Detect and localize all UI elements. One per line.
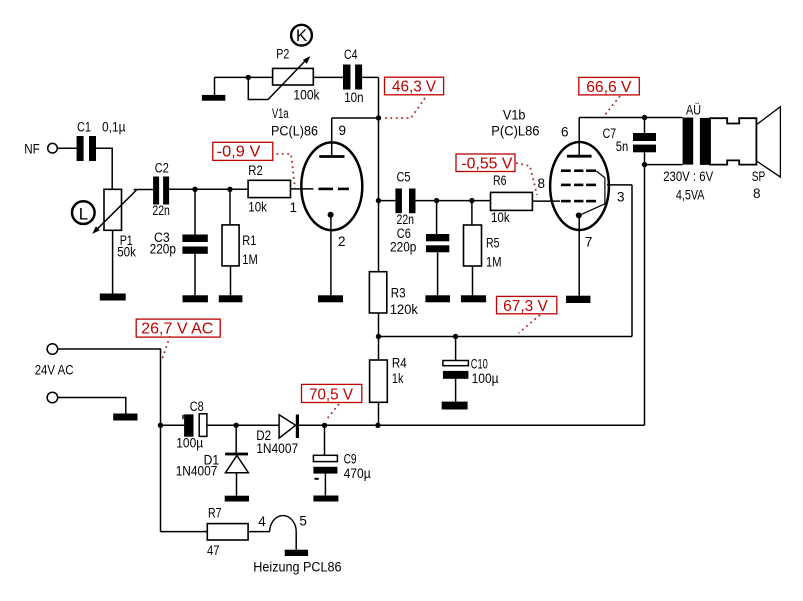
resistor R5 [464, 225, 502, 269]
wire junction to C6 [436, 201, 438, 234]
ground P2 [202, 77, 225, 100]
wire junction to C3 [194, 189, 196, 234]
wire junction to R5 [471, 201, 473, 225]
svg-text:C5: C5 [397, 170, 411, 185]
ground 24V AC [113, 414, 137, 421]
svg-text:4,5VA: 4,5VA [676, 188, 705, 203]
capacitor C4 [343, 47, 364, 105]
capacitor C8 [176, 399, 207, 450]
capacitor C10 [443, 337, 499, 402]
svg-text:8: 8 [538, 176, 546, 191]
wire C4 to rail [362, 76, 378, 78]
capacitor C2 [152, 161, 170, 218]
svg-text:100k: 100k [293, 88, 319, 103]
V1a grid dashes [318, 188, 349, 191]
node R3/R4 junction [376, 334, 381, 339]
node 26,7 V AC annotation [136, 319, 220, 361]
svg-text:5n: 5n [616, 139, 629, 154]
wire supply bus to output rail [378, 424, 645, 426]
svg-text:100µ: 100µ [472, 371, 499, 386]
svg-text:5: 5 [299, 513, 307, 528]
wire V1b pin 6 riser [578, 118, 580, 157]
svg-text:22n: 22n [152, 203, 170, 218]
ground D1 [225, 496, 249, 502]
svg-text:26,7 V AC: 26,7 V AC [141, 320, 213, 337]
node 66,6 V annotation [579, 77, 640, 116]
svg-text:SP: SP [752, 169, 766, 184]
transformer AÜ secondary [700, 118, 710, 165]
wire C3 to ground [194, 254, 196, 295]
svg-text:R2: R2 [248, 163, 262, 178]
svg-text:2: 2 [338, 234, 346, 249]
svg-text:L: L [79, 204, 88, 223]
node D1 junction [234, 423, 239, 428]
svg-text:C4: C4 [344, 47, 358, 62]
svg-text:1M: 1M [242, 252, 257, 267]
svg-text:K: K [296, 26, 308, 45]
svg-text:1: 1 [290, 200, 298, 215]
wire C1 to P1 top [96, 148, 112, 189]
svg-text:C1: C1 [77, 120, 91, 135]
wire R1 to ground [230, 266, 232, 295]
ground V1a cathode [318, 295, 343, 302]
svg-text:Heizung PCL86: Heizung PCL86 [253, 559, 341, 574]
resistor R7 [207, 506, 248, 558]
svg-text:-0,9 V: -0,9 V [217, 144, 261, 161]
wire top terminal to bus [58, 349, 161, 532]
ground R5 [461, 295, 486, 302]
node junction C3 [192, 187, 197, 192]
wire bottom terminal to ground [58, 398, 126, 415]
node junction C6 [434, 198, 439, 203]
resistor R4 [370, 337, 408, 426]
wire V1b anode to transformer [579, 117, 682, 119]
node 67,3 V annotation [497, 296, 557, 333]
wire rail to C5 [379, 200, 396, 202]
op-amp V1a triode envelope [271, 106, 362, 230]
svg-text:P(C)L86: P(C)L86 [491, 124, 539, 139]
svg-text:220p: 220p [390, 240, 416, 255]
node junction R1 [227, 187, 232, 192]
wire B+ rail vertical [378, 77, 380, 271]
wire V1a cathode to ground [330, 215, 332, 296]
wire P1 bottom to ground [112, 230, 114, 293]
node NF input terminal [24, 142, 57, 157]
V1a anode plate [319, 155, 344, 158]
wire wiper to C2 [134, 189, 154, 191]
svg-text:220p: 220p [150, 242, 176, 257]
ground C3 [183, 295, 208, 302]
wire NF to C1 [57, 147, 76, 149]
capacitor C1 [77, 120, 126, 162]
ground V1b cathode [566, 296, 590, 303]
wire P2 to C4 [313, 76, 343, 78]
node 70,5 V annotation [302, 384, 362, 420]
svg-text:1M: 1M [486, 254, 502, 269]
svg-text:230V : 6V: 230V : 6V [663, 169, 713, 184]
wire R2 to V1a grid [291, 188, 314, 190]
svg-text:R1: R1 [242, 233, 256, 248]
node -0,55 V annotation [456, 154, 537, 195]
wire D2 to C9 junction [299, 424, 378, 426]
wire V1b cathode to ground [578, 215, 580, 295]
node C7 top junction [642, 115, 647, 120]
capacitor C5 [395, 170, 415, 227]
svg-text:50k: 50k [117, 245, 136, 260]
wire ground to P2 [215, 76, 273, 78]
wire bus to C8 [161, 424, 185, 426]
svg-text:V1b: V1b [503, 107, 526, 122]
node -0,9 V annotation [213, 142, 295, 188]
svg-text:470µ: 470µ [344, 466, 371, 481]
transformer AÜ primary [683, 118, 694, 165]
svg-text:V1a: V1a [272, 106, 289, 121]
svg-text:P2: P2 [276, 46, 289, 61]
wire screen rail down [631, 185, 633, 337]
ground P1 [100, 294, 126, 301]
svg-text:R3: R3 [391, 286, 406, 301]
svg-text:R7: R7 [208, 506, 222, 521]
svg-text:C10: C10 [471, 357, 488, 372]
svg-text:46,3 V: 46,3 V [392, 78, 436, 95]
node C5 junction [376, 198, 381, 203]
V1b anode plate [567, 155, 592, 158]
capacitor C7 [603, 118, 656, 165]
op-amp V1b pentode envelope [491, 107, 609, 230]
ground C6 [425, 295, 450, 302]
svg-text:-0,55 V: -0,55 V [461, 155, 512, 172]
wire junction to R1 [229, 189, 231, 225]
svg-text:120k: 120k [390, 302, 418, 317]
node P2 junction [246, 75, 251, 80]
capacitor C3 [150, 230, 208, 257]
svg-text:C8: C8 [190, 399, 204, 414]
node 24V AC terminal bottom [47, 392, 58, 403]
svg-text:9: 9 [339, 123, 347, 138]
ground R1 [219, 295, 243, 302]
svg-text:0,1µ: 0,1µ [102, 120, 126, 135]
svg-text:6: 6 [561, 125, 569, 140]
wire P2 wiper return [248, 77, 268, 99]
diode D1 [176, 425, 249, 495]
wire V1a pin 9 riser [331, 118, 333, 157]
wire C2 to R2 [169, 188, 248, 190]
node C7 bottom junction [642, 162, 647, 167]
capacitor C6 [390, 226, 449, 255]
svg-text:4: 4 [258, 514, 266, 529]
potentiometer P2 [268, 46, 320, 102]
svg-text:NF: NF [24, 142, 40, 157]
node R4 bottom junction [375, 423, 380, 428]
wire R5 to ground [472, 266, 474, 295]
node C9 junction [322, 423, 327, 428]
speaker SP [710, 107, 780, 201]
wire V1b screen pin 3 [607, 185, 632, 205]
resistor R2 [248, 163, 290, 214]
wire 67,3V bus [379, 336, 633, 338]
node 46,3 V annotation [385, 77, 444, 118]
wire C5 to R6 [416, 200, 491, 202]
svg-text:8: 8 [753, 186, 761, 201]
svg-text:100µ: 100µ [176, 436, 203, 451]
transformer AÜ labels [663, 102, 713, 202]
diode D2 [256, 415, 299, 457]
V1b grid rows [561, 171, 596, 201]
svg-text:10n: 10n [344, 90, 363, 105]
svg-text:10k: 10k [491, 210, 510, 225]
resistor R1 [222, 225, 258, 267]
svg-text:R4: R4 [392, 356, 407, 371]
svg-text:70,5 V: 70,5 V [309, 387, 353, 404]
svg-text:22n: 22n [397, 212, 415, 227]
svg-text:R5: R5 [486, 236, 500, 251]
svg-text:AÜ: AÜ [686, 102, 701, 117]
svg-text:10k: 10k [248, 199, 267, 214]
V1a cathode [328, 212, 334, 218]
potentiometer P1 [92, 189, 136, 259]
resistor R3 [369, 272, 418, 317]
svg-text:R6: R6 [493, 173, 507, 188]
V1b suppressor tie [581, 171, 605, 215]
wire R3 to bus [378, 313, 380, 337]
resistor R6 [491, 173, 533, 225]
wire R7 to heater [248, 531, 270, 533]
wire C6 to ground [437, 252, 439, 295]
svg-text:1k: 1k [392, 371, 404, 386]
svg-text:C9: C9 [344, 452, 357, 467]
wire V1a anode to B+ rail [332, 117, 379, 119]
ground C9 [313, 496, 338, 502]
heater hump [270, 516, 297, 532]
svg-text:47: 47 [207, 543, 220, 558]
svg-text:24V AC: 24V AC [35, 363, 74, 378]
node K tone circle [291, 25, 312, 46]
svg-text:67,3 V: 67,3 V [503, 298, 548, 315]
node supply bus left junction [158, 423, 163, 428]
svg-text:C2: C2 [155, 161, 169, 176]
wire R6 to V1b grid [532, 200, 560, 202]
node L volume circle [72, 201, 95, 224]
wire transformer primary bottom [645, 164, 683, 166]
V1b cathode [576, 212, 582, 218]
svg-text:1N4007: 1N4007 [256, 441, 298, 456]
svg-text:3: 3 [617, 189, 625, 204]
capacitor C9 [313, 425, 370, 495]
wire heater to ground [295, 532, 297, 550]
ground heater [285, 550, 308, 556]
wire C8 to D1 junction [207, 424, 279, 426]
wire bus down to R7 [161, 531, 208, 533]
node C10 junction [453, 334, 458, 339]
svg-text:66,6 V: 66,6 V [586, 79, 632, 96]
svg-text:PC(L)86: PC(L)86 [271, 124, 318, 139]
node junction R5 [469, 198, 474, 203]
svg-text:7: 7 [585, 234, 593, 249]
node anode junction [376, 115, 381, 120]
wire B+ rail to bottom bus [644, 165, 646, 426]
ground C10 [442, 402, 468, 410]
svg-text:1N4007: 1N4007 [176, 464, 218, 479]
node 24V AC terminal top [35, 344, 74, 378]
svg-text:C7: C7 [603, 126, 617, 141]
